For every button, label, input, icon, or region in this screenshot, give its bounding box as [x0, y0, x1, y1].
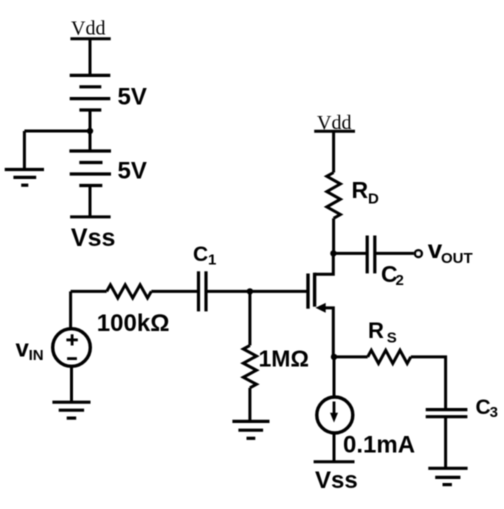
plus sign in vin: [66, 334, 77, 345]
battery V2 (5V bottom): [69, 151, 111, 186]
wire source node to RS: [334, 355, 368, 358]
wire current source to Vss terminal: [333, 433, 336, 462]
node Vdd (left supply) label: [71, 18, 105, 40]
svg-text:D: D: [368, 190, 379, 207]
wire C1 to gate (through junction): [206, 290, 308, 293]
ground (vin): [52, 402, 90, 418]
svg-text:OUT: OUT: [441, 250, 473, 267]
ground (C3): [428, 468, 467, 484]
value label 5V (V1): [118, 83, 147, 110]
wire Vdd to battery V1: [89, 39, 92, 76]
svg-text:Vss: Vss: [315, 467, 358, 494]
resistor RD zigzag: [327, 173, 341, 219]
svg-text:Vss: Vss: [71, 224, 115, 252]
transistor M1 gate bar: [306, 274, 309, 309]
wire down to ground (supply): [23, 131, 26, 170]
label C1: [193, 243, 216, 269]
svg-text:S: S: [387, 330, 397, 347]
ground (1M resistor): [232, 421, 269, 438]
value label 1MOhm: [259, 346, 309, 372]
transistor M1 source lead: [320, 308, 333, 357]
wire junction down to 1M resistor: [248, 291, 251, 345]
Vss terminal bar (current source): [314, 460, 355, 463]
wire vin bottom to ground: [70, 366, 73, 402]
wire drain node to C2: [333, 252, 367, 255]
ground (supply): [5, 170, 44, 186]
svg-text:5V: 5V: [118, 83, 147, 110]
svg-text:0.1mA: 0.1mA: [343, 432, 415, 459]
wire 1M to ground: [248, 388, 251, 422]
value label 5V (V2): [118, 158, 147, 185]
wire C3 to ground: [444, 417, 447, 469]
label vOUT: [428, 234, 473, 267]
svg-text:C: C: [476, 396, 491, 419]
transistor M1 channel bar: [313, 273, 316, 307]
capacitor C3 plates: [426, 410, 468, 417]
Vdd terminal bar (right): [314, 130, 355, 133]
svg-text:1: 1: [208, 252, 216, 269]
node supply midpoint junction: [87, 128, 93, 134]
svg-text:v: v: [16, 335, 30, 362]
minus sign in vin: [67, 357, 77, 360]
svg-text:100kΩ: 100kΩ: [97, 310, 170, 337]
wire Vdd to RD: [332, 131, 335, 172]
output terminal circle: [415, 250, 422, 257]
label C3: [476, 396, 498, 421]
current source I1 circle: [317, 397, 353, 433]
node source junction: [331, 354, 337, 360]
wire vin top up: [69, 291, 72, 328]
svg-text:C: C: [193, 243, 208, 266]
wire RD to drain node: [332, 218, 335, 253]
current source arrow: [333, 402, 336, 415]
transistor M1 drain lead: [315, 253, 334, 274]
source vin circle: [53, 329, 91, 367]
wire junction to left: [24, 130, 90, 133]
Vdd terminal bar (left supply): [70, 37, 110, 40]
value label 0.1mA: [343, 432, 415, 459]
label C2: [381, 261, 404, 289]
battery V1 (5V top): [70, 75, 111, 110]
wire battery V2 to Vss terminal: [89, 186, 92, 217]
wire C2 to output terminal: [375, 252, 414, 255]
Vss terminal bar (left supply): [70, 215, 111, 218]
svg-text:3: 3: [490, 404, 498, 421]
value label 100kOhm: [97, 310, 170, 337]
resistor 100k zigzag: [107, 285, 152, 298]
label RS: [368, 318, 397, 347]
node drain junction: [330, 250, 336, 256]
node Vss (left supply) label: [71, 224, 115, 252]
capacitor C1 plates: [199, 271, 207, 311]
wire battery V1 to battery V2: [89, 110, 92, 151]
node gate junction: [247, 288, 253, 294]
transistor M1 source arrow: [316, 303, 326, 313]
resistor RS zigzag: [368, 350, 411, 363]
wire vin to resistor 100k: [71, 290, 107, 293]
svg-text:R: R: [368, 318, 384, 343]
capacitor C2 plates: [367, 236, 375, 274]
node Vdd (right) label: [317, 112, 351, 134]
resistor 1M zigzag: [243, 345, 256, 387]
svg-text:5V: 5V: [118, 158, 147, 185]
node Vss (current source) label: [315, 467, 358, 494]
wire RS to C3 corner: [411, 357, 446, 408]
svg-text:2: 2: [396, 272, 404, 289]
svg-text:Vdd: Vdd: [71, 18, 105, 40]
label RD: [352, 177, 380, 207]
wire resistor to C1: [151, 290, 197, 293]
label vIN: [16, 335, 44, 364]
svg-text:R: R: [352, 177, 369, 203]
wire source node to current source: [333, 357, 336, 398]
svg-text:IN: IN: [29, 347, 44, 364]
svg-text:1MΩ: 1MΩ: [259, 346, 309, 372]
